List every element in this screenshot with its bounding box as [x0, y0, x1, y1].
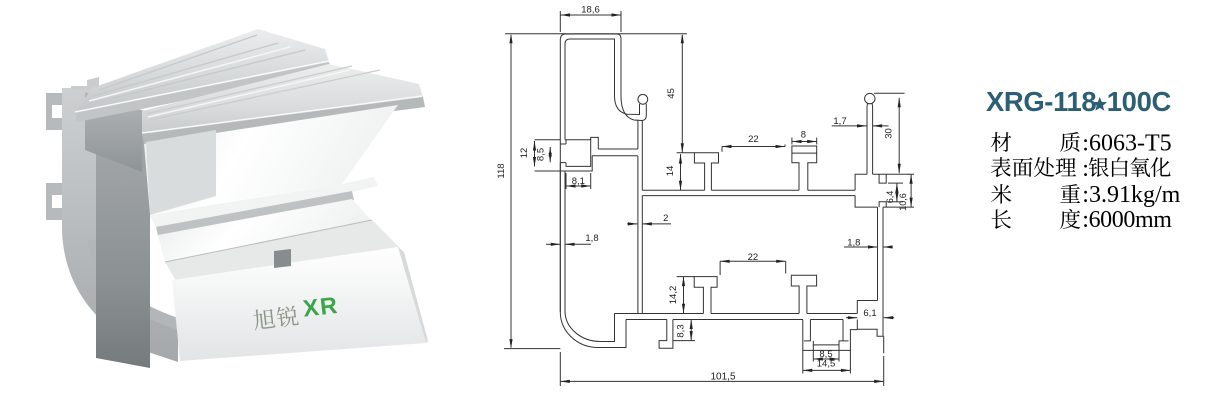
dim 101,5 [560, 380, 883, 382]
3d: bottom skirt top band [165, 220, 400, 281]
svg-text:1,8: 1,8 [585, 233, 598, 244]
hook ball right [865, 93, 875, 103]
svg-text:30: 30 [884, 128, 895, 139]
3d: second plate front lip [142, 97, 425, 144]
dim 8,5 bottom [813, 358, 839, 360]
3d: middle flange top band [150, 177, 378, 228]
3d: second plate streaks [146, 66, 380, 120]
3d: left wall face with curved foot [62, 88, 178, 362]
dim 14,2 [683, 277, 685, 314]
dim 1,8 left [546, 243, 560, 245]
dim 14 upper [680, 154, 682, 190]
svg-text:22: 22 [748, 134, 759, 145]
svg-text:2: 2 [663, 213, 668, 224]
svg-text:14,5: 14,5 [817, 359, 836, 370]
svg-text:14,2: 14,2 [668, 286, 679, 305]
svg-text::3.91kg/m: :3.91kg/m [1082, 182, 1180, 208]
dim 8,5 clip [549, 147, 551, 162]
dim 22 upper [722, 146, 785, 148]
svg-text::: : [1082, 156, 1089, 182]
spec row 3: weight per meter [991, 184, 1011, 204]
descending web wall right line [641, 121, 643, 191]
svg-text:14: 14 [665, 166, 676, 177]
left foot below rail [659, 320, 673, 349]
star glyph [1093, 97, 1108, 111]
spec row 1: material [991, 132, 1011, 152]
spec row 2: surface treatment [991, 157, 1011, 177]
3d: bottom skirt front face [172, 247, 426, 361]
3d: interior channel wall strip [146, 130, 216, 215]
svg-text:1,8: 1,8 [847, 238, 860, 249]
profile outline: inner top box [565, 39, 640, 140]
dim 18,6 [561, 14, 622, 16]
channel arm to clip [598, 148, 638, 150]
bottom left arc inner [565, 311, 615, 342]
lower right T [791, 275, 816, 313]
dim 8,3 [690, 320, 692, 341]
dim 30 [898, 98, 900, 173]
upper left pillar [694, 153, 718, 190]
svg-text:100C: 100C [1107, 86, 1172, 117]
profile outline: outer hook curve top box [621, 96, 646, 121]
dim 22 lower [720, 260, 786, 262]
3d: watermark XuRui XR [252, 292, 341, 331]
clip pocket on left wall [565, 137, 598, 149]
lower left T [694, 277, 717, 314]
6,4 pocket box right [855, 174, 867, 190]
3d: lower mid white face [158, 199, 372, 263]
svg-text:6,1: 6,1 [863, 308, 876, 319]
dim 1,8 right [844, 246, 878, 248]
3d: left wall T-tab upper [46, 93, 62, 130]
6,1 box bottom right [857, 301, 877, 314]
right wall below 6,4 box [877, 207, 879, 300]
dim 2 [627, 223, 637, 225]
svg-text:22: 22 [748, 252, 759, 263]
bottom drop channel [803, 320, 858, 351]
3d: top cap front edge strip [75, 62, 331, 122]
hook ball left [638, 94, 648, 104]
svg-text::6063-T5: :6063-T5 [1082, 131, 1171, 157]
profile outline: left outer wall [560, 34, 621, 312]
dim 12 [534, 141, 536, 167]
svg-text:XRG-118: XRG-118 [986, 86, 1096, 117]
svg-text:XR: XR [302, 292, 340, 322]
right hook wall [866, 103, 869, 174]
svg-text::6000mm: :6000mm [1082, 207, 1172, 233]
svg-text:8,3: 8,3 [676, 324, 687, 337]
bottom left arc outer [560, 312, 626, 348]
3d: cap left end step [71, 77, 99, 90]
dim 14,5 bottom [803, 369, 851, 371]
svg-text:8: 8 [801, 130, 806, 141]
lower rail [615, 313, 704, 315]
3d: skirt small hole [274, 249, 291, 268]
dim 6,4 [896, 183, 898, 202]
dim 10,6 [910, 174, 912, 207]
3d: middle flange lip [156, 191, 354, 236]
svg-text:45: 45 [666, 88, 677, 99]
svg-text:18,6: 18,6 [581, 5, 600, 16]
dim 8,1 [566, 185, 591, 187]
3d: skirt right end face [398, 247, 428, 343]
svg-text:118: 118 [496, 163, 507, 178]
3d: curved foot inner shade [88, 240, 178, 330]
3d: top box front face [85, 92, 142, 172]
dim 118 [510, 35, 512, 348]
mid rail [642, 189, 704, 191]
spec row 4: length [992, 209, 1012, 229]
3d: top cap top surface [75, 29, 329, 119]
svg-text:101,5: 101,5 [710, 372, 735, 383]
dim 8 upper [792, 141, 817, 143]
3d: cap brushed streaks [86, 35, 305, 105]
svg-text:8,5: 8,5 [536, 148, 547, 161]
dim 6,1 [846, 317, 857, 319]
svg-text:8,1: 8,1 [572, 176, 585, 187]
3d: upper mid white face [144, 105, 398, 214]
3d: left wall T-tab lower [46, 183, 62, 220]
3d: dark web side face [96, 100, 150, 368]
svg-text:1,7: 1,7 [833, 116, 846, 127]
svg-text:12: 12 [519, 148, 530, 159]
dim 1,7 [832, 125, 867, 127]
descending web wall (2mm) left line [637, 121, 639, 150]
svg-text:6,4: 6,4 [885, 191, 895, 204]
dim 45 [681, 35, 683, 153]
upper right T [792, 146, 817, 190]
svg-text:10,6: 10,6 [898, 193, 908, 211]
3d: second plate top surface [142, 64, 423, 134]
